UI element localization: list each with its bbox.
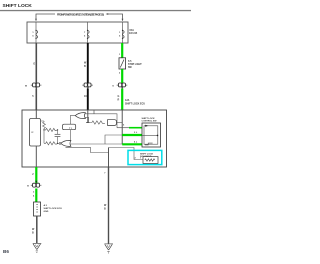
wire timer to G2 [69, 130, 71, 141]
wire W2 into comparator chain [87, 110, 89, 123]
wire G1 out to timer [70, 116, 75, 125]
connector J3 [112, 83, 127, 89]
shift lock ECU box [22, 110, 167, 167]
connector J2 [82, 83, 93, 89]
wire W3 connector to ECU [121, 89, 123, 111]
svg-text:GND: GND [44, 211, 49, 213]
svg-text:SHIFT LOCK ECU: SHIFT LOCK ECU [125, 102, 145, 105]
capacitor C1 [57, 130, 59, 134]
wire W4 connector to junction [35, 189, 37, 203]
node dot [57, 143, 58, 144]
svg-text:B: B [84, 65, 86, 68]
wire W2 connector to ECU [87, 89, 89, 111]
wire W1 connector to ECU [35, 89, 37, 111]
resistor R1 [45, 128, 57, 131]
resistor R3 [89, 121, 105, 124]
svg-text:SHIFT LOCK: SHIFT LOCK [3, 3, 33, 9]
wire R0 to R2 [43, 130, 45, 143]
wire W2 (middle, black) fuse to connector [87, 43, 89, 83]
wire G1 input B [85, 117, 89, 122]
wire to bottom pin [108, 148, 110, 168]
wire W6 ECU to ground right [108, 167, 110, 244]
timer block U2 [63, 124, 76, 130]
wire W5 to ground [36, 216, 38, 243]
stop light switch S1 [119, 58, 126, 69]
connector J1 [25, 83, 41, 89]
transistor G3 [108, 120, 117, 126]
svg-text:FROM POWER SOURCE SYSTEM (SEE: FROM POWER SOURCE SYSTEM (SEE PAGE 22) [57, 13, 104, 17]
solenoid coil [143, 157, 158, 164]
shift lock control switch box [142, 123, 161, 147]
wire solenoid drive down [66, 147, 109, 152]
switch contacts [144, 126, 158, 144]
gate G1 [75, 113, 85, 119]
svg-text:B6: B6 [3, 249, 9, 254]
arrowhead toward note [106, 13, 109, 15]
node dot [43, 129, 44, 130]
leader wire left [36, 14, 55, 21]
svg-text:B: B [104, 208, 106, 211]
green link pin1 [129, 127, 142, 129]
svg-text:CONTROL SW: CONTROL SW [142, 121, 158, 123]
green link pin2 [122, 134, 142, 136]
fuse F3 ECU-B [122, 22, 124, 43]
gate G2 [61, 140, 71, 146]
svg-text:R: R [118, 99, 120, 102]
solenoid box (cyan highlight) [128, 150, 162, 164]
wire W3 (green) fuse to stop light switch [121, 43, 123, 58]
wire W4 green ECU to connector [35, 167, 37, 183]
ground GND2 [104, 244, 113, 253]
resistor R2 [44, 142, 57, 145]
IC block U1 [30, 119, 41, 147]
svg-text:STOP LIGHT: STOP LIGHT [128, 64, 142, 66]
wire x122 vertical inside ECU [121, 110, 123, 144]
svg-text:ECU-B: ECU-B [129, 32, 137, 35]
wire G3 out [116, 122, 122, 124]
fuse F2 [87, 22, 89, 43]
wire W1 (left, gray) fuse to connector [35, 43, 37, 83]
svg-text:SHIFT LOCK: SHIFT LOCK [140, 153, 154, 155]
wire to solenoid [109, 148, 144, 160]
arrow into fuse box right [122, 19, 124, 21]
svg-text:G: G [33, 63, 35, 66]
junction block J5 [34, 202, 41, 216]
pin stub [93, 110, 95, 114]
wire G2 output long [71, 143, 123, 145]
ground GND1 [33, 243, 42, 252]
wire node to G2 [58, 142, 60, 144]
arrow into fuse box left [35, 19, 37, 21]
wire IC to ECU bottom pin [35, 146, 37, 167]
svg-text:SHIFT LOCK: SHIFT LOCK [142, 118, 156, 120]
green link pin3 [122, 143, 142, 145]
svg-text:B: B [32, 232, 34, 235]
fuse box (junction block) [27, 22, 128, 43]
connector J4 [27, 181, 41, 188]
ECU internal: wire from pin to IC [35, 110, 37, 119]
title underline [0, 10, 191, 11]
wire W3 switch to connector [121, 69, 123, 83]
resistor R0 vertical [41, 121, 45, 129]
svg-text:SHIFT LOCK ECU: SHIFT LOCK ECU [44, 208, 63, 210]
fuse F1 [35, 22, 37, 43]
wire L node [105, 135, 122, 144]
wire G1 input A [85, 114, 117, 128]
leader wire right [109, 14, 123, 21]
